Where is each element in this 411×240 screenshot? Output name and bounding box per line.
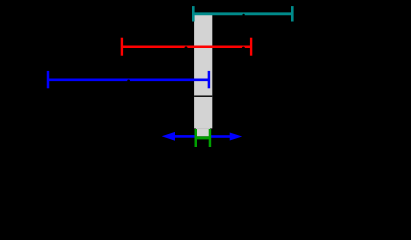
errorbar (blue) lower measurement (48, 71, 209, 88)
black center dot (red measurement) (185, 46, 188, 49)
black divider line across gray band (194, 96, 212, 97)
errorbar (red) middle measurement (122, 38, 251, 56)
blue arrow left (pointing left) (162, 132, 197, 141)
black center dot (teal measurement) (242, 14, 244, 16)
errorbar (green) bottom precise measurement (196, 129, 210, 147)
gray band lower narrow segment (between green caps) (196, 128, 210, 136)
gray average band (main) (194, 15, 212, 129)
black dot on red bar (right) (242, 47, 245, 50)
black center dot (blue measurement) (127, 80, 130, 83)
errorbar (teal) top measurement (193, 6, 292, 21)
blue arrow right (pointing right) (209, 133, 242, 141)
